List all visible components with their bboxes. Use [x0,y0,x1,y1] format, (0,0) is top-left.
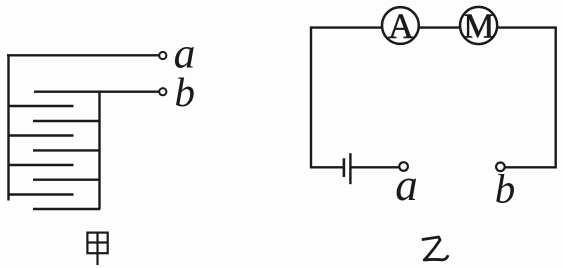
wire: lead from coil to terminal b [34,90,159,92]
ammeter A [382,6,419,46]
coil winding: left vertical bus [7,54,9,200]
coil turn 5 (left-attached) [9,164,74,166]
coil turn 8 (right-attached, bottom) [33,208,100,210]
coil turn 2 (right-attached) [33,120,99,122]
svg-text:b: b [175,69,196,115]
terminal a of coil (open circle) [159,52,166,59]
wire: right side of loop [555,26,557,168]
wire: top lead from coil to terminal a [7,54,159,56]
svg-text:A: A [388,6,414,46]
wire: battery to terminal a [350,166,399,168]
coil turn 1 (left-attached) [9,105,74,107]
wire: terminal b to right side of loop [505,166,556,168]
terminal b of circuit (open circle) [496,163,505,172]
coil turn 6 (right-attached) [33,178,99,180]
coil turn 4 (right-attached) [33,149,99,151]
terminal b of coil (open circle) [159,88,166,95]
svg-text:a: a [395,160,418,210]
svg-text:M: M [463,7,494,46]
coil turn 3 (left-attached) [9,134,74,136]
coil turn 7 (left-attached) [9,193,74,195]
wire: left side of loop [310,26,312,168]
battery cell: short plate (negative) [343,158,346,177]
coil winding: right vertical bus [98,92,100,209]
terminal a of circuit (open circle) [399,162,408,171]
motor M [460,7,497,46]
caption 甲 (figure jia) [87,233,107,265]
wire: top side of right-circuit loop [311,26,556,28]
caption 乙 (figure yi) [422,237,448,260]
svg-text:b: b [495,165,516,211]
wire: bottom-left, loop to battery [311,166,343,168]
battery cell: long plate (positive) [349,153,351,184]
